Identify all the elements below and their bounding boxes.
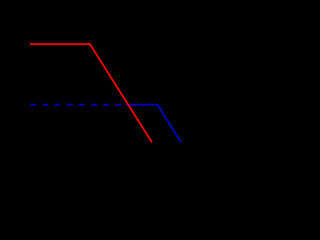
blue dashed gain level line <box>30 104 121 106</box>
blue solid closed-loop gain curve <box>126 105 181 143</box>
red open-loop gain curve <box>30 44 152 142</box>
